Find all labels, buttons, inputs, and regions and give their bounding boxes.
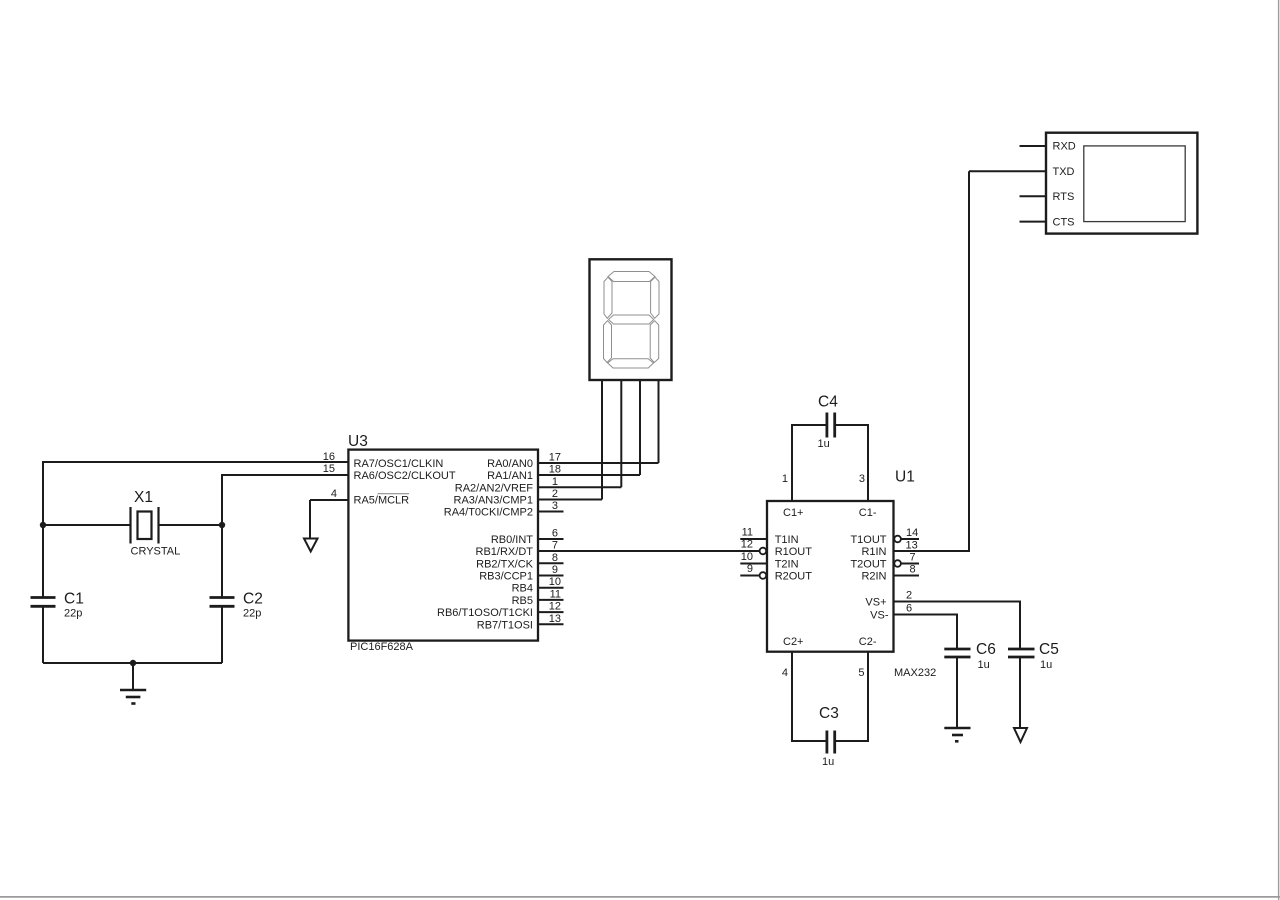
svg-text:T2OUT: T2OUT xyxy=(850,559,886,571)
capacitor C1 22p xyxy=(31,525,84,663)
wire RA2 to display xyxy=(538,486,621,488)
svg-text:RB6/T1OSO/T1CKI: RB6/T1OSO/T1CKI xyxy=(437,607,533,619)
wire RB1 to R1OUT xyxy=(538,550,760,552)
svg-text:18: 18 xyxy=(549,464,561,476)
svg-text:VS-: VS- xyxy=(870,610,889,622)
svg-text:9: 9 xyxy=(747,563,753,575)
ground at crystal xyxy=(120,663,146,704)
svg-text:RA1/AN1: RA1/AN1 xyxy=(487,470,533,482)
serial port connector xyxy=(1046,133,1197,234)
svg-text:T1IN: T1IN xyxy=(775,534,799,546)
IC U1 MAX232 xyxy=(767,469,936,680)
svg-text:5: 5 xyxy=(858,667,864,679)
U3 pin 17 RA0/AN0 xyxy=(487,452,561,471)
svg-text:C1: C1 xyxy=(64,591,84,608)
capacitor C6 1u xyxy=(944,641,996,728)
svg-text:13: 13 xyxy=(549,613,561,625)
frame edge bottom xyxy=(0,896,1280,898)
7-segment digit xyxy=(604,272,660,369)
U3 pin 6 RB0/INT xyxy=(491,528,564,547)
connector pin RXD xyxy=(1020,141,1076,153)
connector pin RTS xyxy=(1020,191,1075,203)
svg-text:12: 12 xyxy=(741,539,753,551)
svg-text:1u: 1u xyxy=(978,659,990,671)
U1 pin 10 T2IN xyxy=(740,551,798,571)
svg-text:C2+: C2+ xyxy=(783,636,804,648)
svg-text:RTS: RTS xyxy=(1053,191,1075,203)
svg-text:R1IN: R1IN xyxy=(861,546,886,558)
connector pin TXD xyxy=(969,166,1075,178)
svg-text:U1: U1 xyxy=(895,469,915,486)
svg-text:9: 9 xyxy=(552,564,558,576)
U1 pin 4 C2+ xyxy=(782,636,804,679)
svg-text:C1+: C1+ xyxy=(783,507,804,519)
U1 pin 12 R1OUT xyxy=(741,539,813,559)
svg-text:17: 17 xyxy=(549,452,561,464)
svg-text:TXD: TXD xyxy=(1053,166,1075,178)
capacitor C4 1u xyxy=(792,394,868,502)
svg-text:4: 4 xyxy=(331,488,337,500)
U3 pin 2 RA3/AN3/CMP1 xyxy=(454,488,558,507)
svg-text:RXD: RXD xyxy=(1053,141,1076,153)
display pin wire to RA1 xyxy=(639,380,641,475)
capacitor C5 1u xyxy=(1008,641,1059,728)
svg-text:RB2/TX/CK: RB2/TX/CK xyxy=(476,558,534,570)
U3 pin 9 RB3/CCP1 xyxy=(479,564,563,583)
U3 pin 12 RB6/T1OSO/T1CKI xyxy=(437,601,563,620)
wire RA0 to display xyxy=(538,462,659,464)
svg-text:R2IN: R2IN xyxy=(861,571,886,583)
svg-text:6: 6 xyxy=(906,603,912,615)
svg-text:10: 10 xyxy=(741,551,753,563)
svg-text:12: 12 xyxy=(549,601,561,613)
svg-text:4: 4 xyxy=(782,667,788,679)
svg-text:7: 7 xyxy=(552,540,558,552)
ground arrow at RA5 xyxy=(304,500,318,552)
svg-text:R1OUT: R1OUT xyxy=(775,546,813,558)
svg-text:6: 6 xyxy=(552,528,558,540)
svg-text:RB5: RB5 xyxy=(512,595,533,607)
svg-text:X1: X1 xyxy=(134,489,153,506)
svg-text:1: 1 xyxy=(782,473,788,485)
svg-text:U3: U3 xyxy=(348,433,368,450)
U3 pin 8 RB2/TX/CK xyxy=(476,552,563,571)
U1 pin 9 R2OUT xyxy=(740,563,812,583)
U3 pin 10 RB4 xyxy=(512,576,564,595)
svg-text:2: 2 xyxy=(906,590,912,602)
U3 pin 15 RA6/OSC2/CLKOUT xyxy=(323,463,456,482)
svg-text:7: 7 xyxy=(910,552,916,564)
connector pin CTS xyxy=(1020,216,1075,228)
svg-text:3: 3 xyxy=(859,473,865,485)
wire ground bus xyxy=(43,662,222,664)
svg-text:RB1/RX/DT: RB1/RX/DT xyxy=(476,546,534,558)
svg-text:22p: 22p xyxy=(64,608,82,620)
U1 pin 3 C1- xyxy=(859,473,877,519)
U3 pin 1 RA2/AN2/VREF xyxy=(455,476,558,495)
crystal X1 xyxy=(43,489,222,558)
U3 pin 7 RB1/RX/DT xyxy=(476,540,558,559)
svg-text:RA2/AN2/VREF: RA2/AN2/VREF xyxy=(455,482,534,494)
svg-text:1u: 1u xyxy=(1040,659,1052,671)
svg-text:RB4: RB4 xyxy=(512,583,533,595)
svg-text:T1OUT: T1OUT xyxy=(850,534,886,546)
U1 pin 1 C1+ xyxy=(782,473,804,519)
svg-text:T2IN: T2IN xyxy=(775,559,799,571)
svg-text:3: 3 xyxy=(552,500,558,512)
U3 pin 13 RB7/T1OSI xyxy=(477,613,564,632)
svg-text:13: 13 xyxy=(906,540,918,552)
U1 pin 13 R1IN xyxy=(861,540,917,559)
svg-text:1: 1 xyxy=(552,476,558,488)
svg-text:R2OUT: R2OUT xyxy=(775,571,813,583)
U1 pin 14 T1OUT xyxy=(850,527,919,546)
wire OSC2 to crystal right xyxy=(222,475,348,525)
capacitor C3 1u xyxy=(792,652,868,768)
U1 pin 11 T1IN xyxy=(740,527,798,547)
svg-text:10: 10 xyxy=(549,576,561,588)
wire VS+ to C5 xyxy=(894,602,1021,649)
svg-text:11: 11 xyxy=(742,527,753,539)
7-segment display xyxy=(590,259,672,380)
svg-text:RB7/T1OSI: RB7/T1OSI xyxy=(477,619,533,631)
display pin wire to RA3 xyxy=(601,380,603,500)
svg-text:14: 14 xyxy=(906,527,918,539)
node ground junction xyxy=(130,660,136,666)
U1 pin 5 C2- xyxy=(858,636,876,679)
svg-text:2: 2 xyxy=(552,488,558,500)
U3 pin 3 RA4/T0CKI/CMP2 xyxy=(444,500,564,519)
svg-text:RB0/INT: RB0/INT xyxy=(491,534,533,546)
svg-text:RA3/AN3/CMP1: RA3/AN3/CMP1 xyxy=(454,495,533,507)
svg-text:C6: C6 xyxy=(976,641,996,658)
svg-text:PIC16F628A: PIC16F628A xyxy=(350,641,414,653)
svg-text:15: 15 xyxy=(323,463,335,475)
wire RA3 to display xyxy=(538,499,602,501)
ground arrow at C5 xyxy=(1014,728,1027,742)
wire TXD to R1IN xyxy=(894,171,970,551)
U1 pin 8 R2IN xyxy=(861,564,919,583)
U1 pin 2 VS+ xyxy=(865,590,912,609)
svg-text:RA6/OSC2/CLKOUT: RA6/OSC2/CLKOUT xyxy=(354,470,456,482)
U3 pin 18 RA1/AN1 xyxy=(487,464,561,483)
svg-text:1u: 1u xyxy=(818,438,830,450)
U3 pin 4 RA5/MCLR xyxy=(310,488,409,507)
IC U3 PIC16F628A xyxy=(348,433,538,653)
svg-text:C1-: C1- xyxy=(859,507,877,519)
display pin wire to RA0 xyxy=(658,380,660,463)
U3 pin 16 RA7/OSC1/CLKIN xyxy=(323,451,444,470)
svg-text:C4: C4 xyxy=(818,394,838,411)
svg-text:RA7/OSC1/CLKIN: RA7/OSC1/CLKIN xyxy=(354,458,444,470)
display pin wire to RA2 xyxy=(620,380,622,487)
svg-text:11: 11 xyxy=(550,588,561,600)
svg-text:C2-: C2- xyxy=(859,636,877,648)
U1 pin 6 VS- xyxy=(870,603,912,622)
U1 pin 7 T2OUT xyxy=(850,552,919,571)
svg-text:RB3/CCP1: RB3/CCP1 xyxy=(479,571,533,583)
svg-text:CRYSTAL: CRYSTAL xyxy=(131,546,181,558)
frame edge right xyxy=(1278,0,1280,900)
U3 pin 11 RB5 xyxy=(512,588,564,607)
wire VS- to C6 xyxy=(894,615,958,649)
svg-text:RA5/MCLR: RA5/MCLR xyxy=(354,495,410,507)
svg-text:CTS: CTS xyxy=(1053,216,1075,228)
capacitor C2 22p xyxy=(210,525,263,663)
svg-text:MAX232: MAX232 xyxy=(894,667,936,679)
wire OSC1 to crystal left xyxy=(43,462,348,525)
svg-text:RA0/AN0: RA0/AN0 xyxy=(487,458,533,470)
svg-text:RA4/T0CKI/CMP2: RA4/T0CKI/CMP2 xyxy=(444,507,533,519)
node crystal left xyxy=(40,522,46,528)
node crystal right xyxy=(219,522,225,528)
svg-text:1u: 1u xyxy=(822,756,834,768)
wire RA1 to display xyxy=(538,474,640,476)
svg-text:8: 8 xyxy=(910,564,916,576)
svg-text:C2: C2 xyxy=(243,591,263,608)
svg-text:8: 8 xyxy=(552,552,558,564)
ground at C6 xyxy=(944,728,970,741)
svg-text:C3: C3 xyxy=(819,705,839,722)
svg-text:VS+: VS+ xyxy=(865,597,886,609)
svg-text:22p: 22p xyxy=(243,608,261,620)
svg-text:C5: C5 xyxy=(1039,641,1059,658)
